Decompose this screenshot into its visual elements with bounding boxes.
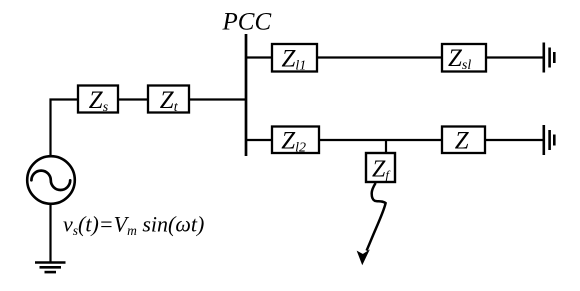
ground (bottom right, sideways)	[544, 125, 555, 155]
fault arrow squiggle	[367, 183, 386, 251]
wire source bottom to ground	[49, 204, 51, 263]
fault arrowhead	[358, 251, 369, 264]
wire Zl1 to Zsl	[317, 56, 442, 58]
wire Zsl to right ground top	[486, 56, 543, 58]
wire Zl2 to Z	[319, 139, 442, 141]
svg-text:Z: Z	[455, 128, 470, 155]
wire stub to Zf	[385, 140, 387, 153]
wire bus to Zl2	[246, 139, 272, 141]
load impedance Z	[442, 127, 485, 154]
ac source V1	[27, 156, 75, 204]
resistor Zs	[78, 86, 118, 113]
node PCC bus	[245, 34, 248, 156]
fault impedance Zf	[366, 153, 395, 182]
wire bus to Zl1	[246, 56, 272, 58]
svg-text:PCC: PCC	[222, 9, 272, 36]
ground (top right, sideways)	[544, 43, 555, 73]
wire source top to Zs	[51, 100, 79, 157]
wire Zs to Zt	[118, 98, 148, 100]
line impedance Zl1	[272, 44, 317, 72]
transformer impedance Zt	[148, 86, 189, 113]
load impedance Zsl	[442, 44, 486, 72]
wire Z to right ground bottom	[485, 139, 543, 141]
ground (left)	[35, 263, 66, 273]
line impedance Zl2	[272, 127, 319, 154]
wire Zt to PCC bus	[189, 98, 246, 100]
